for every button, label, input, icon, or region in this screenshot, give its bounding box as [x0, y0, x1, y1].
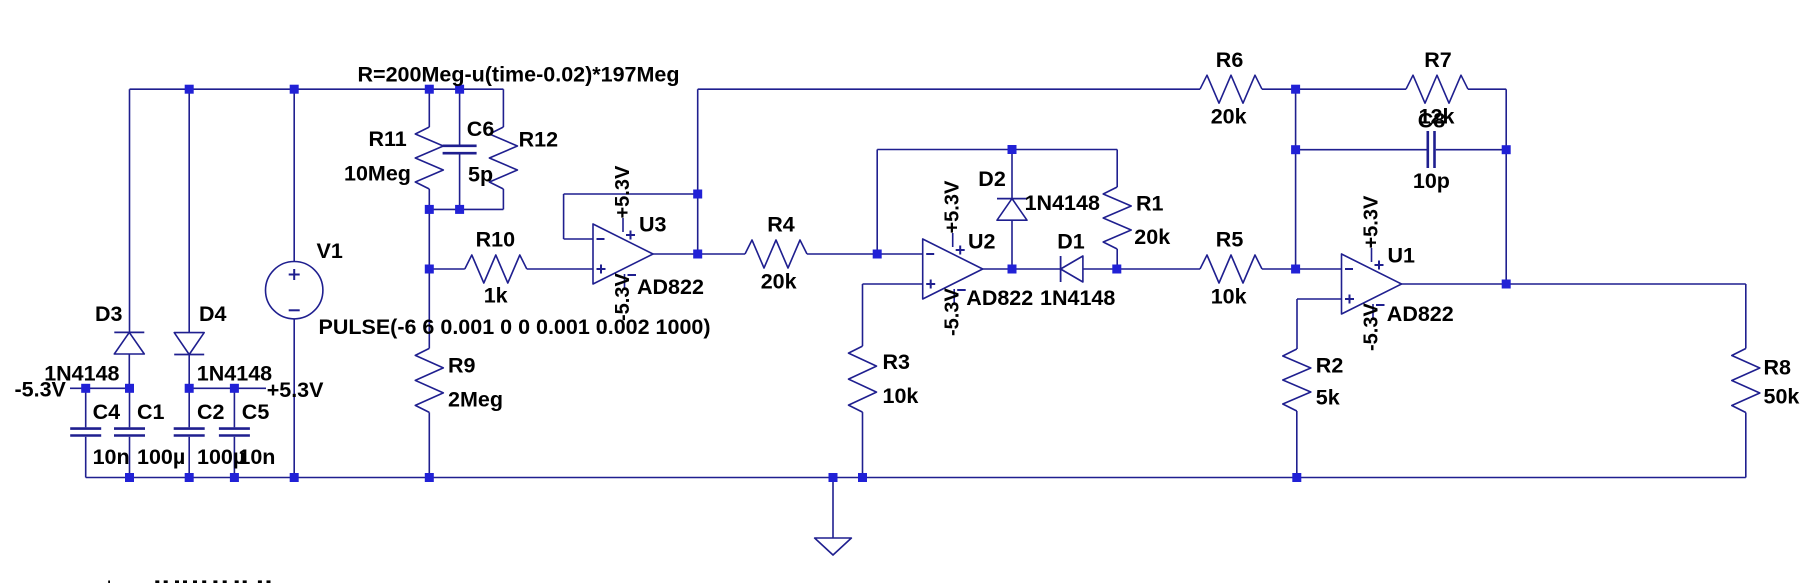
svg-text:D3: D3: [95, 302, 123, 326]
svg-text:-5.3V: -5.3V: [612, 273, 634, 321]
svg-text:C6: C6: [467, 117, 495, 141]
svg-text:+5.3V: +5.3V: [612, 165, 634, 218]
svg-text:10Meg: 10Meg: [344, 161, 411, 185]
svg-text:PULSE(-6 6 0.001 0 0 0.001 0.0: PULSE(-6 6 0.001 0 0 0.001 0.002 1000): [319, 315, 711, 339]
svg-text:10n: 10n: [238, 445, 275, 469]
svg-text:10k: 10k: [883, 384, 919, 408]
svg-text:AD822: AD822: [637, 275, 704, 299]
svg-text:U3: U3: [639, 213, 667, 237]
svg-text:1N4148: 1N4148: [1025, 191, 1100, 215]
svg-text:+5.3V: +5.3V: [942, 180, 964, 233]
svg-text:R9: R9: [448, 354, 476, 378]
svg-text:1N4148: 1N4148: [197, 361, 272, 385]
svg-text:R12: R12: [519, 128, 558, 152]
svg-text:-5.3V: -5.3V: [1361, 303, 1383, 351]
svg-text:C2: C2: [197, 400, 225, 424]
svg-text:20k: 20k: [761, 270, 797, 294]
svg-text:50k: 50k: [1764, 385, 1800, 409]
svg-text:D4: D4: [199, 302, 227, 326]
svg-text:10n: 10n: [93, 445, 130, 469]
svg-text:R4: R4: [767, 212, 795, 236]
svg-text:AD822: AD822: [1387, 302, 1454, 326]
svg-text:R6: R6: [1216, 48, 1244, 72]
svg-text:R1: R1: [1136, 192, 1164, 216]
svg-text:D1: D1: [1057, 229, 1085, 253]
svg-text:D2: D2: [978, 167, 1006, 191]
svg-text:U1: U1: [1388, 243, 1416, 267]
svg-text:1k: 1k: [484, 284, 508, 308]
svg-text:C1: C1: [137, 400, 165, 424]
svg-text:AD822: AD822: [966, 286, 1033, 310]
svg-text:R3: R3: [883, 350, 911, 374]
svg-text:R11: R11: [369, 127, 407, 151]
svg-text:5p: 5p: [468, 163, 493, 187]
svg-text:R7: R7: [1424, 48, 1452, 72]
svg-text:+5.3V: +5.3V: [1361, 195, 1383, 248]
svg-text:V1: V1: [317, 239, 343, 263]
svg-text:R10: R10: [476, 227, 515, 251]
svg-text:-5.3V: -5.3V: [942, 288, 964, 336]
svg-text:100µ: 100µ: [137, 445, 185, 469]
svg-text:R5: R5: [1216, 228, 1244, 252]
svg-text:-5.3V: -5.3V: [15, 378, 67, 402]
svg-text:U2: U2: [968, 229, 996, 253]
svg-text:10p: 10p: [1413, 169, 1450, 193]
svg-text:R8: R8: [1764, 356, 1792, 380]
svg-text:C8: C8: [1418, 109, 1446, 133]
svg-text:1N4148: 1N4148: [1040, 286, 1115, 310]
svg-text:C5: C5: [242, 400, 270, 424]
svg-text:2Meg: 2Meg: [448, 388, 503, 412]
svg-text:10k: 10k: [1211, 285, 1247, 309]
svg-text:20k: 20k: [1211, 105, 1247, 129]
svg-text:5k: 5k: [1316, 386, 1340, 410]
svg-text:R=200Meg-u(time-0.02)*197Meg: R=200Meg-u(time-0.02)*197Meg: [358, 62, 680, 86]
svg-text:C4: C4: [93, 400, 121, 424]
svg-text:20k: 20k: [1134, 225, 1170, 249]
svg-text:+5.3V: +5.3V: [267, 378, 324, 402]
svg-text:R2: R2: [1316, 354, 1344, 378]
